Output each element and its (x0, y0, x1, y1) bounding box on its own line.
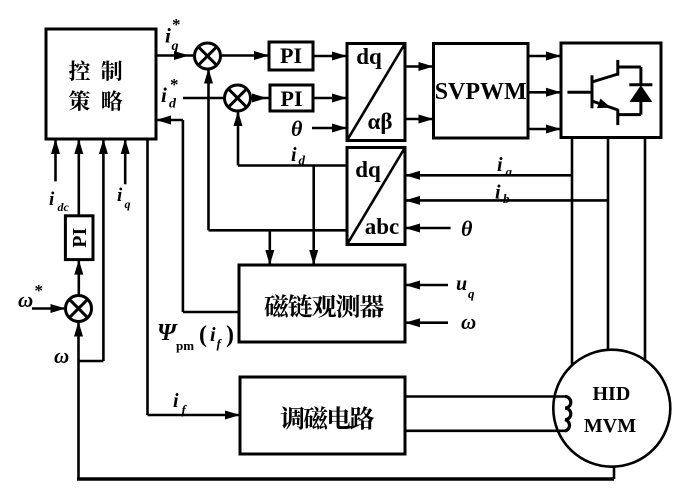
svg-text:q: q (125, 197, 131, 211)
svg-text:q: q (172, 39, 179, 54)
svg-text:i: i (210, 324, 216, 346)
svg-text:): ) (226, 322, 234, 348)
svg-text:ω: ω (461, 310, 476, 334)
svg-text:ω: ω (54, 344, 69, 368)
svg-text:i: i (161, 83, 167, 107)
svg-text:SVPWM: SVPWM (435, 79, 527, 105)
svg-text:HID: HID (593, 383, 631, 405)
svg-text:i: i (117, 185, 123, 206)
svg-text:ω: ω (18, 288, 33, 312)
svg-text:d: d (169, 97, 177, 112)
svg-text:dc: dc (58, 200, 70, 214)
svg-text:abc: abc (365, 214, 400, 239)
svg-text:i: i (173, 390, 179, 412)
svg-text:dq: dq (355, 157, 381, 182)
svg-text:b: b (503, 191, 510, 206)
svg-text:u: u (456, 273, 467, 295)
svg-text:θ: θ (461, 216, 473, 241)
svg-text:αβ: αβ (368, 109, 393, 134)
svg-text:PI: PI (281, 86, 303, 111)
svg-text:d: d (299, 153, 306, 168)
svg-text:dq: dq (356, 44, 382, 69)
svg-text:Ψ: Ψ (157, 320, 178, 346)
svg-text:i: i (291, 144, 297, 166)
svg-text:a: a (506, 164, 513, 179)
svg-text:PI: PI (69, 227, 91, 247)
svg-text:MVM: MVM (584, 415, 636, 437)
svg-text:i: i (495, 182, 501, 204)
svg-text:PI: PI (280, 43, 302, 68)
svg-text:i: i (49, 189, 55, 210)
svg-text:pm: pm (176, 338, 194, 353)
svg-text:i: i (497, 154, 503, 176)
svg-text:*: * (172, 15, 181, 34)
svg-text:θ: θ (291, 116, 303, 141)
svg-text:q: q (468, 286, 475, 301)
svg-text:*: * (35, 281, 44, 300)
svg-text:(: ( (199, 322, 207, 348)
svg-text:*: * (170, 75, 179, 94)
svg-text:i: i (165, 24, 171, 48)
